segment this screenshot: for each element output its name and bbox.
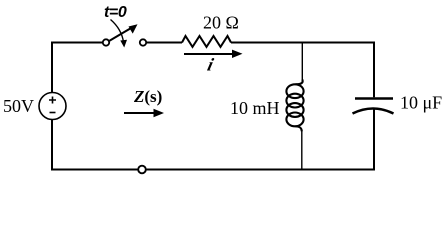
svg-text:t=0: t=0 [104,4,127,21]
svg-text:10 mH: 10 mH [230,98,280,118]
capacitor C1 bottom curved plate [353,109,394,114]
wire: right vertical top (to capacitor) [373,42,375,98]
Z(s) arrow [124,112,157,114]
switch actuation arc arrow [111,20,124,43]
svg-text:20 Ω: 20 Ω [203,13,239,33]
wire: bottom horizontal rail [52,169,375,171]
voltage source V1 50V [39,93,66,120]
switch S1 right contact [140,39,146,45]
svg-text:i: i [206,55,216,75]
resistor R1 zigzag [182,36,231,47]
wire: left vertical, source bottom to bottom-left corner [51,120,53,171]
svg-text:10 μF: 10 μF [400,93,442,113]
switch blade with arrow [110,28,133,41]
+ polarity mark [49,97,56,104]
wire: top-left horizontal to switch left contact [51,42,103,44]
- polarity mark [50,112,56,114]
inductor L1 coil [286,80,303,132]
svg-text:Z(s): Z(s) [133,87,162,106]
wire: resistor to top-right corner [231,42,375,44]
switch S1 left contact [103,39,109,45]
wire: left vertical, top-left corner to source top [51,44,53,93]
current arrow i [184,53,235,55]
wire: switch to resistor [147,42,183,44]
svg-text:50V: 50V [3,96,34,116]
wire: inductor branch top lead [301,43,303,81]
capacitor C1 top plate [355,97,393,100]
wire: right vertical bottom [373,109,375,171]
wire: inductor bottom lead [301,131,303,170]
node: bottom terminal open circle [138,166,146,174]
